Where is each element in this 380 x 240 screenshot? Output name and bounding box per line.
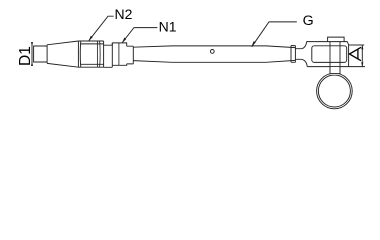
swage cone: [47, 41, 78, 67]
hex body N2: [78, 41, 103, 67]
pin head cap: [328, 37, 345, 42]
svg-text:G: G: [303, 13, 314, 29]
lock nut N1: [112, 43, 126, 65]
pin bottom end: [331, 67, 340, 75]
wire stud: [34, 46, 48, 62]
body G barrel top edge: [133, 46, 295, 48]
svg-text:N1: N1: [159, 19, 177, 35]
leader N1: [122, 28, 157, 43]
body G barrel bottom edge: [133, 60, 295, 62]
jaw inner recess: [312, 46, 347, 63]
dimension line D1: [31, 43, 33, 65]
barrel hole: [210, 50, 214, 54]
ring: [317, 73, 353, 109]
leader G: [252, 22, 297, 47]
clevis pin through jaw: [329, 42, 331, 67]
dimension A top extension line: [349, 44, 365, 46]
step washer: [104, 43, 113, 67]
end collar: [291, 46, 295, 63]
dimension A line: [361, 45, 363, 67]
neck: [295, 49, 301, 60]
collar: [127, 46, 134, 64]
jaw body: [302, 42, 349, 67]
leader N2: [89, 16, 114, 40]
jaw bottom edge with extension: [307, 66, 365, 68]
label A (rotated): [349, 47, 361, 60]
svg-text:N2: N2: [115, 6, 133, 22]
